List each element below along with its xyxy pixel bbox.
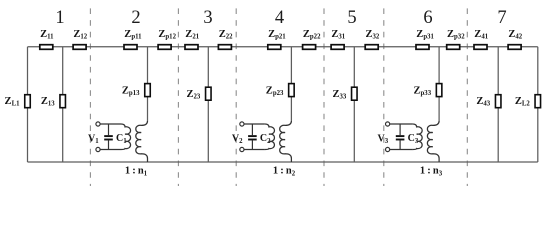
svg-text:4: 4 <box>275 8 284 28</box>
impedance Zp13 (shunt) <box>122 84 150 98</box>
transformer T3 secondary winding <box>427 121 439 162</box>
impedance Zp23 (shunt) <box>266 84 294 98</box>
transformer T2 secondary winding <box>280 121 292 162</box>
wire bottom rail <box>28 161 538 163</box>
impedance Z23 (shunt) <box>186 87 211 100</box>
impedance Zp33 (shunt) <box>414 84 442 98</box>
capacitor C2 <box>248 124 271 150</box>
wire top rail <box>28 46 538 48</box>
transformer T1 primary winding <box>121 124 131 150</box>
impedance Zp31 (series) <box>416 29 434 49</box>
impedance Z32 (series) <box>365 29 380 49</box>
impedance Zp32 (series) <box>447 29 465 49</box>
transformer T3 primary winding <box>413 124 423 150</box>
port terminal circles V3 <box>386 122 390 152</box>
impedance Zp12 (series) <box>158 29 176 49</box>
wire Z23 branch <box>207 47 209 162</box>
impedance Z22 (series) <box>218 29 233 49</box>
impedance Zp21 (series) <box>268 29 286 49</box>
impedance Z43 (shunt) <box>476 95 501 108</box>
impedance Z42 (series) <box>508 29 523 49</box>
wire port bottom <box>390 149 413 151</box>
wire port top <box>390 123 413 125</box>
port terminal circles V1 <box>96 122 100 152</box>
wire ZL1 branch <box>27 47 29 162</box>
impedance Z11 (series) <box>40 29 54 49</box>
port terminal circles V2 <box>240 122 244 152</box>
impedance Z33 (shunt) <box>332 87 357 100</box>
capacitor C1 <box>104 124 127 150</box>
impedance Zp22 (series) <box>303 29 321 49</box>
wire Z43 branch <box>497 47 499 162</box>
section boundary dashed line 2 <box>177 8 179 186</box>
wire port bottom <box>244 149 265 151</box>
wire port top <box>100 123 121 125</box>
impedance Z13 (shunt) <box>41 95 66 108</box>
impedance Z31 (series) <box>331 29 346 49</box>
section boundary dashed line 6 <box>466 8 468 186</box>
impedance Z12 (series) <box>73 29 88 49</box>
section boundary dashed line 3 <box>235 8 237 186</box>
transformer T1 secondary winding <box>136 121 148 162</box>
wire Zp33 branch upper <box>438 47 440 121</box>
section boundary dashed line 5 <box>383 8 385 186</box>
wire ZL2 branch <box>537 47 539 162</box>
wire port top <box>244 123 265 125</box>
svg-text:2: 2 <box>131 8 140 28</box>
svg-text:1: 1 <box>55 8 64 28</box>
svg-text:3: 3 <box>203 8 212 28</box>
svg-text:6: 6 <box>423 8 432 28</box>
wire Zp23 branch upper <box>290 47 292 121</box>
impedance Zp11 (series) <box>124 29 142 49</box>
wire Zp13 branch upper <box>147 47 149 121</box>
section boundary dashed line 4 <box>323 8 325 186</box>
impedance ZL2 (shunt) <box>515 95 541 108</box>
wire Z13 branch <box>62 47 64 162</box>
section boundary dashed line 1 <box>89 8 91 186</box>
impedance ZL1 (shunt) <box>5 95 31 108</box>
svg-text:5: 5 <box>347 8 356 28</box>
impedance Z21 (series) <box>185 29 200 49</box>
svg-text:7: 7 <box>497 8 506 28</box>
wire port bottom <box>100 149 121 151</box>
wire Z33 branch <box>353 47 355 162</box>
capacitor C3 <box>396 124 419 150</box>
impedance Z41 (series) <box>474 29 489 49</box>
transformer T2 primary winding <box>265 124 275 150</box>
